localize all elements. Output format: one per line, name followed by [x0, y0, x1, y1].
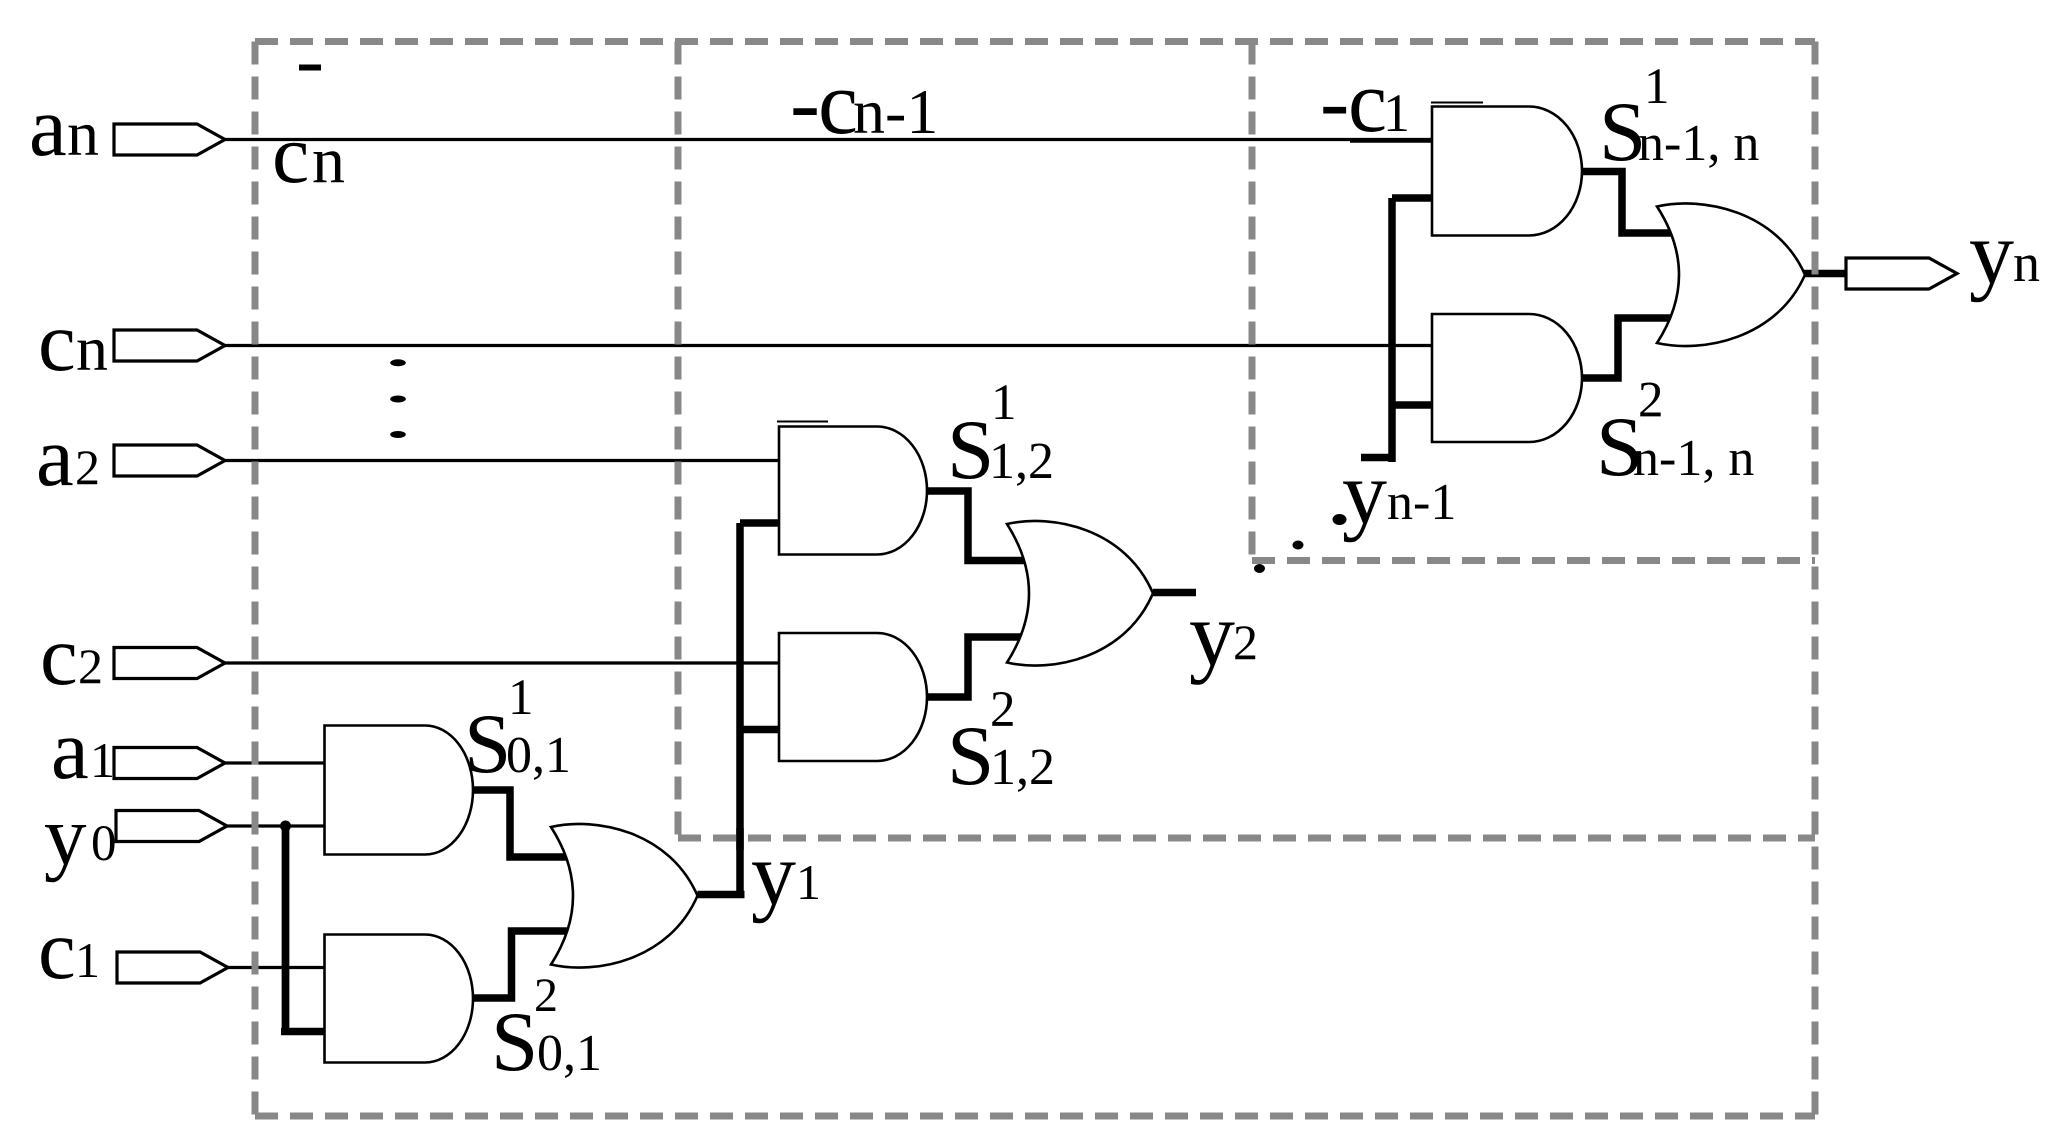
input port c1 — [117, 952, 228, 983]
wire yn-1 branch to AND S2n-1,n lower input — [1392, 401, 1432, 409]
input port a1 — [114, 748, 225, 779]
AND gate S1 0,1 — [325, 726, 474, 855]
wire an input to AND S1n-1,n — [224, 138, 1432, 141]
wire AND S10,1 output to OR y1 upper input — [473, 790, 570, 857]
svg-text:c: c — [818, 54, 858, 153]
input port cn — [114, 330, 225, 361]
svg-text:n: n — [312, 124, 345, 197]
wire yn-1 stub — [1361, 454, 1392, 462]
svg-text:2: 2 — [534, 969, 558, 1022]
svg-text:c: c — [38, 295, 76, 389]
svg-text:n: n — [76, 313, 108, 384]
svg-text:2: 2 — [1233, 614, 1258, 670]
wire y0 input to AND S10,1 — [225, 824, 325, 827]
input port an — [114, 124, 225, 155]
OR gate y1 — [551, 824, 698, 968]
vertical ellipsis between cn and a2 — [390, 359, 406, 438]
svg-text:0: 0 — [91, 816, 117, 872]
wire an thicker approach segment — [1350, 138, 1432, 143]
AND gate S2 0,1 — [325, 935, 474, 1063]
stray segment above AND S1 n-1,n — [1431, 102, 1483, 104]
svg-text:1: 1 — [1383, 83, 1410, 143]
input port c2 — [114, 648, 225, 679]
output port yn — [1846, 258, 1957, 289]
svg-text:y: y — [44, 789, 87, 883]
svg-text:n-1: n-1 — [853, 76, 938, 147]
svg-text:-: - — [790, 54, 820, 153]
svg-text:c: c — [40, 609, 78, 703]
OR gate yn — [1657, 203, 1805, 346]
svg-text:a: a — [29, 80, 67, 174]
negation overbar above cn label — [299, 65, 321, 71]
svg-text:2: 2 — [78, 638, 103, 694]
wire OR y2 output stub — [1153, 589, 1196, 597]
dashed divider: stage-2 cell — [678, 42, 1815, 839]
svg-text:S: S — [947, 403, 994, 497]
node: y0 branch junction dot — [280, 821, 291, 832]
svg-text:1: 1 — [796, 854, 821, 910]
svg-text:2: 2 — [990, 682, 1016, 738]
wire y1 riser over dashed divider crossing — [736, 828, 744, 850]
dashed module frame (outer) — [255, 42, 1815, 1117]
wire AND S2n-1,n output to OR yn lower input — [1582, 318, 1674, 378]
svg-text:2: 2 — [75, 439, 100, 495]
svg-text:c: c — [272, 108, 309, 201]
svg-text:c: c — [38, 903, 76, 997]
svg-text:n: n — [2013, 233, 2040, 293]
wire a2 input to AND S11,2 — [224, 459, 779, 462]
svg-text:1,2: 1,2 — [989, 433, 1054, 490]
OR gate y2 — [1007, 521, 1153, 666]
wire c1 input to AND S20,1 — [226, 966, 325, 969]
wire y1 branch to AND S21,2 lower input — [740, 726, 779, 734]
svg-text:1: 1 — [508, 670, 534, 726]
svg-text:a: a — [36, 410, 74, 504]
wire AND S20,1 output to OR y1 lower input — [473, 931, 571, 998]
svg-text:n-1: n-1 — [1387, 474, 1456, 531]
svg-text:1: 1 — [90, 732, 115, 788]
svg-text:n: n — [67, 98, 99, 169]
svg-text:y: y — [1969, 204, 2014, 303]
svg-text:0,1: 0,1 — [506, 727, 571, 784]
svg-text:2: 2 — [1638, 373, 1664, 429]
AND gate S1 1,2 — [779, 427, 927, 555]
svg-text:a: a — [51, 703, 89, 797]
wire c2 input to AND S21,2 — [224, 661, 779, 664]
dashed divider: stage-n cell — [1252, 42, 1815, 561]
AND gate S2 1,2 — [779, 633, 927, 761]
AND gate S2 n-1,n — [1432, 314, 1582, 442]
svg-text:1: 1 — [75, 932, 100, 988]
wire (bus) y0 riser down to AND S20,1 lower input — [281, 826, 325, 1032]
svg-text:-: - — [1320, 54, 1349, 151]
wire AND S1n-1,n output to OR yn upper input — [1582, 172, 1675, 234]
svg-text:1: 1 — [1644, 59, 1670, 115]
svg-text:n-1, n: n-1, n — [1638, 115, 1759, 172]
stray segment above AND S1 1,2 — [777, 421, 828, 423]
svg-text:y: y — [1189, 583, 1235, 685]
wire cn input to AND S2n-1,n — [224, 344, 1432, 347]
input port a2 — [114, 445, 225, 476]
wire OR y1 output — [698, 891, 745, 899]
wire (bus) y1 riser up to AND S11,2 lower input — [740, 523, 779, 895]
svg-text:y: y — [1342, 444, 1387, 543]
input port y0 — [116, 811, 227, 842]
svg-text:n-1, n: n-1, n — [1633, 430, 1754, 487]
wire AND S11,2 output to OR y2 upper input — [927, 491, 1028, 561]
svg-text:1,2: 1,2 — [990, 739, 1055, 796]
wire AND S21,2 output to OR y2 lower input — [927, 637, 1024, 697]
svg-text:1: 1 — [991, 375, 1017, 431]
svg-text:c: c — [1348, 54, 1387, 151]
wire a1 input to AND S10,1 — [222, 761, 325, 764]
wire OR yn output to port — [1803, 270, 1848, 278]
diagonal ellipsis toward yn-1 — [1254, 514, 1347, 573]
svg-text:S: S — [491, 995, 538, 1089]
svg-text:S: S — [464, 697, 511, 791]
svg-text:S: S — [947, 709, 994, 803]
wire (bus) yn-1 riser up to AND S1n-1,n lower input — [1392, 198, 1432, 462]
svg-text:0,1: 0,1 — [537, 1025, 602, 1082]
AND gate S1 n-1,n — [1432, 107, 1582, 236]
